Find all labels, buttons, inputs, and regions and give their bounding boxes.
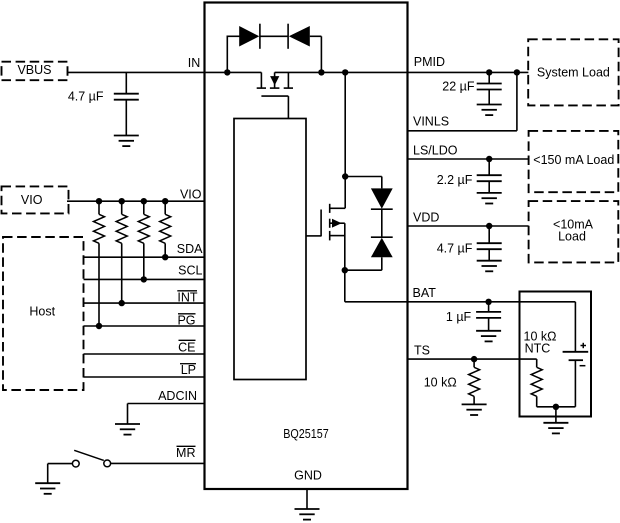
wire between diodes — [260, 35, 288, 37]
svg-text:VDD: VDD — [413, 210, 439, 224]
capacitor C5 1 uF BAT — [476, 302, 501, 331]
wire IN net: VBUS to FET source — [68, 71, 262, 73]
internal control block — [234, 119, 306, 380]
thermistor RT1 NTC — [531, 367, 542, 407]
ground (VDD cap) — [477, 261, 502, 272]
junction dot IN right — [318, 69, 324, 75]
Q2 body arrow — [330, 222, 345, 224]
wire LP — [84, 376, 205, 378]
svg-text:Host: Host — [29, 305, 55, 319]
body diode pair D3 D4 — [345, 177, 393, 271]
svg-text:BQ25157: BQ25157 — [283, 427, 329, 441]
battery pack box — [520, 292, 592, 417]
svg-text:System Load: System Load — [537, 65, 610, 79]
IC U1 BQ25157 outline — [205, 3, 408, 490]
Q2 source lead — [330, 235, 345, 237]
svg-text:SCL: SCL — [178, 264, 202, 278]
ground (LS/LDO cap) — [477, 193, 502, 204]
ground (BAT cap) — [476, 331, 501, 342]
svg-text:4.7 µF: 4.7 µF — [437, 241, 473, 255]
junction dot TS — [471, 356, 477, 362]
svg-text:22 µF: 22 µF — [442, 80, 475, 94]
ground (battery pack) — [543, 423, 568, 434]
Q1 gate — [261, 95, 288, 97]
svg-text:INT: INT — [177, 291, 198, 305]
diode D3 — [371, 188, 393, 208]
wire TS — [408, 359, 537, 367]
resistor R1 pull-up to PG — [94, 201, 105, 326]
junction dot Q2 drain — [342, 173, 348, 179]
wire VIO net — [67, 200, 205, 202]
ground (TS resistor) — [462, 404, 487, 415]
node Host (dashed box) — [3, 237, 84, 390]
svg-text:SDA: SDA — [177, 242, 203, 256]
svg-text:ADCIN: ADCIN — [158, 389, 197, 403]
battery polarity labels — [581, 343, 587, 348]
wire GND pin — [306, 489, 308, 509]
svg-text:IN: IN — [188, 56, 201, 70]
svg-text:PG: PG — [177, 314, 195, 328]
junction dot BAT cap — [485, 299, 491, 305]
resistor R5 10 kOhm TS — [469, 359, 480, 404]
node System Load (dashed box) — [528, 39, 618, 105]
wire NTC to battery negative — [537, 406, 576, 408]
resistor R3 pull-up to SCL — [138, 201, 149, 279]
capacitor C4 4.7 uF VDD — [477, 226, 502, 261]
wire top to D3 — [345, 176, 382, 178]
Q2 channel dashes — [329, 204, 331, 213]
node 150 mA Load (dashed box) — [529, 131, 619, 192]
svg-text:<150 mA Load: <150 mA Load — [533, 153, 614, 167]
wire Q2 drain riser — [344, 72, 346, 208]
Q2 gate bar — [320, 210, 322, 237]
wire INT — [84, 302, 205, 304]
capacitor C3 2.2 uF LS/LDO — [477, 159, 502, 193]
capacitor C2 22 uF PMID — [477, 72, 502, 104]
ground (PMID cap) — [477, 105, 502, 116]
battery FET Q2 — [306, 72, 345, 301]
junction dot VDD cap — [486, 223, 492, 229]
wire CE — [84, 353, 205, 355]
wire between D3 D4 — [381, 209, 383, 237]
diode D4 — [371, 236, 393, 238]
capacitor C1 4.7 uF input — [114, 72, 139, 135]
svg-text:10 kΩ: 10 kΩ — [424, 376, 457, 390]
svg-text:1 µF: 1 µF — [446, 310, 472, 324]
junction dot SCL — [141, 276, 147, 282]
junction dot PMID/VINLS — [514, 69, 520, 75]
wire diode branch left riser — [226, 36, 228, 73]
svg-text:VIO: VIO — [180, 188, 202, 202]
svg-text:Load: Load — [558, 230, 586, 244]
junction dot SDA — [162, 254, 168, 260]
junction dot PG — [96, 323, 102, 329]
Q1 drain lead — [287, 72, 289, 88]
wire PG — [84, 325, 205, 327]
junction dot PMID riser — [342, 69, 348, 75]
wire BAT — [345, 302, 576, 352]
svg-text:VINLS: VINLS — [413, 114, 449, 128]
svg-text:GND: GND — [294, 469, 322, 483]
svg-text:TS: TS — [414, 344, 430, 358]
diode D2 — [287, 24, 289, 49]
junction dot battery ground — [553, 404, 559, 410]
resistor R2 pull-up to INT — [116, 201, 127, 303]
ground (input cap) — [114, 136, 139, 147]
svg-text:LS/LDO: LS/LDO — [413, 143, 458, 157]
junction dot PMID cap — [486, 69, 492, 75]
battery BT1 — [563, 352, 589, 407]
back-to-back diodes D1 D2 on IN — [227, 24, 321, 73]
wire D4 to source node — [381, 257, 383, 270]
wire LS/LDO — [408, 158, 529, 160]
switch S1 (MR pushbutton) — [72, 450, 110, 467]
wire SDA — [84, 256, 205, 258]
ground (switch) — [35, 483, 60, 494]
wire diode branch right riser — [310, 35, 322, 37]
battery minus label — [580, 365, 586, 367]
svg-text:4.7 µF: 4.7 µF — [68, 90, 104, 104]
junction dot Q2 source — [342, 267, 348, 273]
svg-text:VIO: VIO — [21, 193, 43, 207]
wire VINLS to PMID — [408, 72, 517, 130]
node VIO (dashed source box) — [2, 186, 69, 213]
Q1 body diode — [274, 72, 276, 88]
node VBUS (dashed source box) — [2, 62, 68, 80]
junction dots VIO pull-up rail — [96, 198, 102, 204]
junction dot IN left — [224, 69, 230, 75]
ground (IC GND) — [295, 509, 320, 520]
junction dot INT — [119, 300, 125, 306]
Q1 source lead — [260, 72, 262, 88]
svg-text:VBUS: VBUS — [17, 63, 51, 77]
wire SCL — [84, 278, 205, 280]
wire ADCIN — [128, 404, 205, 425]
svg-text:2.2 µF: 2.2 µF — [437, 173, 473, 187]
svg-text:BAT: BAT — [413, 286, 437, 300]
wire VDD — [408, 225, 529, 227]
junction dot LS/LDO cap — [486, 156, 492, 162]
svg-text:MR: MR — [176, 446, 195, 460]
svg-text:NTC: NTC — [525, 341, 551, 355]
wire Q2 gate to control block — [306, 235, 321, 237]
ground (ADCIN) — [115, 424, 140, 435]
wire IN/PMID net to system load — [275, 71, 529, 73]
resistor R4 pull-up to SDA — [160, 201, 171, 257]
node 10mA Load (dashed box) — [529, 201, 619, 262]
wire battery node to ground — [555, 407, 557, 423]
svg-text:PMID: PMID — [414, 55, 445, 69]
input blocking FET Q1 — [257, 72, 293, 118]
wire MR — [110, 462, 204, 464]
wire switch to ground — [48, 464, 73, 484]
svg-text:CE: CE — [178, 340, 195, 354]
diode D1 — [239, 26, 259, 47]
svg-text:LP: LP — [181, 363, 196, 377]
